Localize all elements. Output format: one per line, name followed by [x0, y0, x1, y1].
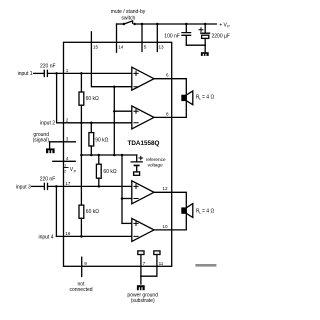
svg-text:10: 10 — [162, 224, 168, 229]
op-amp A4 — [132, 218, 154, 241]
node R1 top junction — [80, 72, 83, 75]
svg-text:3: 3 — [66, 136, 69, 141]
svg-text:= 4 Ω: = 4 Ω — [202, 209, 214, 215]
wire input 1 to pin 1 and amp1 + — [48, 72, 132, 74]
ground power supply decoupling — [204, 45, 206, 52]
node rail bus right — [121, 154, 124, 157]
svg-text:4: 4 — [66, 156, 69, 161]
wire input rail 1-2 — [56, 73, 58, 122]
svg-text:1: 1 — [64, 164, 66, 168]
wire amp4 output pin 10 to speaker2 — [154, 214, 186, 230]
svg-text:2200 µF: 2200 µF — [212, 33, 230, 39]
svg-text:mute / stand-by: mute / stand-by — [111, 9, 146, 15]
wire pin 3 signal ground — [50, 142, 76, 149]
pin 7 internal terminal — [138, 251, 144, 255]
wire pin 4 half VP — [53, 160, 75, 162]
node amp2 plus junction — [113, 110, 116, 113]
svg-text:connected: connected — [69, 287, 92, 293]
svg-text:220 nF: 220 nF — [40, 64, 56, 70]
node rail junction 2200uF — [204, 23, 207, 26]
svg-text:input 1: input 1 — [18, 71, 33, 77]
node input4 internal junction — [80, 235, 83, 238]
wire input 2 to amp2 - — [57, 122, 132, 124]
resistor R3 60k — [98, 155, 100, 164]
resistor R4 60k — [79, 205, 84, 218]
reference voltage cell — [131, 155, 142, 162]
svg-text:60 kΩ: 60 kΩ — [86, 96, 99, 102]
wire pin 15 stub above IC — [90, 32, 92, 43]
capacitor C3 100 nF — [182, 24, 191, 45]
svg-text:7: 7 — [143, 261, 146, 266]
svg-text:(signal): (signal) — [33, 138, 50, 144]
svg-text:5: 5 — [144, 45, 147, 50]
ground signal hatched — [46, 148, 55, 153]
wire internal bus mid — [113, 87, 115, 155]
node rail R2 — [90, 154, 93, 157]
wire +VP top rail right segment — [135, 23, 217, 25]
IC U1 TDA1558Q outline — [64, 42, 172, 266]
svg-text:P: P — [74, 169, 77, 173]
node R1 bottom junction — [80, 122, 83, 125]
wire internal bus left down — [80, 123, 82, 205]
svg-text:11: 11 — [159, 261, 164, 266]
svg-text:switch: switch — [121, 16, 135, 22]
svg-text:90 kΩ: 90 kΩ — [95, 137, 108, 143]
node input3 junction — [55, 185, 58, 188]
svg-text:6: 6 — [166, 72, 169, 77]
svg-text:13: 13 — [159, 45, 165, 50]
svg-text:TDA1558Q: TDA1558Q — [128, 140, 160, 147]
wire amp1 output pin 6 to speaker1 — [154, 79, 186, 95]
node R3 bottom junction — [98, 185, 101, 188]
svg-text:12: 12 — [162, 186, 168, 191]
wire to amp2 + — [114, 110, 132, 112]
node switch right contact — [133, 23, 136, 26]
node rail bus mid — [113, 154, 116, 157]
node rail junction pin 5 — [141, 23, 144, 26]
svg-text:14: 14 — [118, 45, 124, 50]
wire +VP top rail left segment to switch — [117, 23, 124, 25]
node amp1 minus bus junction — [113, 85, 116, 88]
svg-text:2: 2 — [64, 169, 66, 173]
svg-text:8: 8 — [166, 112, 169, 117]
pin 11 internal terminal — [154, 251, 160, 255]
svg-text:1: 1 — [66, 68, 69, 73]
wire pin 14 vertical from rail into IC — [116, 24, 118, 52]
wire input 4 to amp4 - — [56, 235, 131, 237]
wire input rail 3-4 — [55, 186, 57, 236]
node switch left contact — [123, 23, 126, 26]
wire to amp4 + — [122, 222, 132, 224]
svg-text:17: 17 — [65, 181, 71, 186]
wire amp3 output pin 12 to speaker2 — [154, 192, 186, 207]
svg-text:voltage: voltage — [148, 163, 164, 168]
wire internal rail half VP — [81, 154, 136, 156]
reference cell plus sign — [139, 156, 143, 160]
wire internal bus right down — [121, 155, 123, 223]
node rail R3 — [98, 154, 101, 157]
loudspeaker RL1 4 ohm — [181, 95, 186, 101]
resistor R1 60k — [80, 73, 82, 92]
wire pin 5 vertical from rail into IC — [141, 24, 143, 52]
svg-text:60 kΩ: 60 kΩ — [103, 169, 116, 175]
node rail junction 100nF — [185, 23, 188, 26]
ground power substrate hatched — [137, 285, 145, 290]
watermark gray bar — [195, 264, 216, 267]
wire input 3 to pin 17 and amp3 + — [48, 185, 132, 187]
wire amp2 output pin 8 to speaker1 — [154, 101, 186, 117]
node amp3 minus junction — [121, 197, 124, 200]
wire pin 15 drop inside IC to amp1 - — [91, 42, 131, 86]
wire to amp3 - — [122, 198, 132, 200]
capacitor C1 220 nF — [44, 70, 47, 76]
capacitor C2 220 nF — [44, 183, 47, 189]
svg-text:P: P — [227, 25, 230, 29]
svg-text:reference: reference — [146, 157, 166, 162]
svg-text:input 3: input 3 — [16, 184, 31, 190]
op-amp A1 — [132, 67, 154, 90]
svg-text:9: 9 — [84, 261, 87, 266]
node rail junction pin 13 — [156, 23, 159, 26]
svg-text:60 kΩ: 60 kΩ — [86, 209, 99, 215]
op-amp A2 — [132, 106, 154, 129]
op-amp A3 — [132, 181, 154, 204]
svg-text:(substrate): (substrate) — [131, 298, 155, 304]
svg-text:input 4: input 4 — [38, 234, 53, 240]
wire decoupling bottom — [186, 44, 205, 46]
svg-text:15: 15 — [93, 45, 99, 50]
node input1 junction — [55, 72, 58, 75]
wire input 3 — [32, 185, 45, 187]
wire pin 13 vertical from rail into IC — [156, 24, 158, 52]
svg-text:100 nF: 100 nF — [164, 33, 180, 39]
svg-text:input 2: input 2 — [40, 121, 55, 127]
svg-text:= 4 Ω: = 4 Ω — [202, 95, 214, 101]
capacitor C4 plus sign — [199, 28, 203, 32]
mute/stand-by switch S1 — [124, 21, 133, 24]
svg-text:16: 16 — [65, 231, 71, 236]
loudspeaker RL2 4 ohm — [181, 207, 186, 213]
svg-text:220 nF: 220 nF — [40, 177, 56, 183]
wire power ground drop — [140, 276, 142, 284]
wire input 1 — [34, 72, 45, 74]
node R2 top junction — [90, 122, 93, 125]
wire pin 7 to power ground — [140, 255, 142, 277]
capacitor C4 2200 uF electrolytic — [201, 24, 210, 45]
node rail R1bus — [80, 154, 83, 157]
wire pin 9 not connected stub — [81, 257, 83, 276]
resistor R2 90k — [90, 123, 92, 133]
wire pin 11 to power ground — [141, 255, 157, 277]
svg-text:2: 2 — [66, 117, 69, 122]
